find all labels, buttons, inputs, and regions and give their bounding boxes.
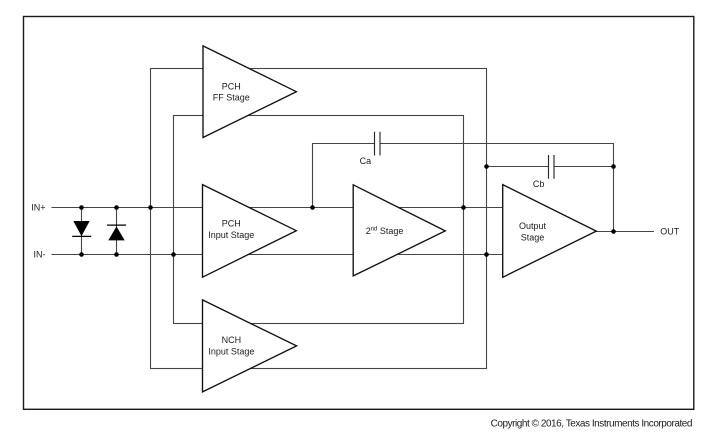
diode D2 (107, 225, 126, 240)
op-amp NCH Input Stage (203, 300, 297, 392)
node OUT label (660, 226, 680, 236)
svg-text:Ca: Ca (360, 156, 372, 166)
node junction IN+ at D2 (114, 205, 119, 210)
svg-text:IN+: IN+ (31, 202, 45, 212)
copyright note (491, 418, 692, 429)
capacitor Ca (360, 132, 380, 166)
wire diode D1 branch (81, 208, 83, 255)
op-amp Output Stage (503, 185, 597, 278)
svg-text:NCH: NCH (222, 335, 242, 345)
wire IN- row (52, 254, 503, 256)
op-amp PCH Input Stage (203, 185, 297, 278)
diode D1 (72, 221, 91, 236)
op-amp 2nd Stage (353, 185, 445, 276)
node junction IN- at D2 (114, 252, 119, 257)
node junction IN+ at D1 (79, 205, 84, 210)
node junction Cb left (484, 164, 489, 169)
svg-text:OUT: OUT (660, 226, 680, 236)
svg-text:PCH: PCH (222, 81, 241, 91)
node junction inner loop right at 2nd stage output (461, 205, 466, 210)
node IN+ label (31, 202, 45, 212)
svg-text:Copyright © 2016, Texas Instru: Copyright © 2016, Texas Instruments Inco… (491, 418, 692, 429)
svg-text:PCH: PCH (222, 219, 241, 229)
wire diode D2 branch (116, 208, 118, 255)
svg-text:Stage: Stage (521, 233, 545, 243)
wire outer feedback loop rectangle (151, 69, 487, 369)
wire IN+ row (52, 207, 503, 209)
wire Cb feedback path (487, 166, 614, 168)
node junction IN- at D1 (79, 252, 84, 257)
wire OUT (596, 231, 654, 233)
node junction IN- at inner loop (171, 252, 176, 257)
svg-text:Input Stage: Input Stage (208, 346, 254, 356)
svg-text:Cb: Cb (533, 179, 545, 189)
op-amp PCH FF Stage (203, 46, 296, 138)
node IN- label (34, 249, 46, 259)
svg-text:FF Stage: FF Stage (213, 92, 250, 102)
wire Ca feedback path (313, 144, 614, 232)
node junction OUT (611, 229, 616, 234)
svg-text:Output: Output (519, 221, 547, 231)
node junction IN+ at outer loop (148, 205, 153, 210)
wire inner feedback loop rectangle (174, 116, 464, 324)
node junction Ca tap (310, 205, 315, 210)
capacitor Cb (533, 155, 554, 189)
svg-text:IN-: IN- (34, 249, 46, 259)
node junction Cb right (611, 164, 616, 169)
node junction outer loop right at output stage input (484, 252, 489, 257)
svg-text:Input Stage: Input Stage (208, 230, 254, 240)
